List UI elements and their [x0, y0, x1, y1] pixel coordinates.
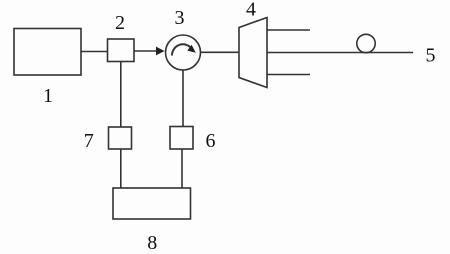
svg-text:3: 3	[175, 7, 185, 29]
circulator internal arrowhead	[187, 45, 196, 53]
wire box6 down to box8	[181, 149, 183, 188]
svg-text:4: 4	[246, 0, 256, 21]
coupler 4 trapezoid	[239, 18, 267, 88]
svg-text:7: 7	[84, 130, 94, 152]
svg-text:5: 5	[426, 45, 436, 67]
svg-text:8: 8	[147, 232, 157, 254]
wire box2 down to box7	[120, 62, 122, 128]
box 7	[109, 127, 132, 149]
box 6	[170, 127, 193, 150]
wire circulator to coupler	[201, 51, 240, 53]
output wire top	[267, 29, 310, 31]
svg-text:1: 1	[43, 85, 53, 107]
wire box1 to box2	[81, 51, 108, 53]
circulator U3 circle	[166, 35, 201, 70]
arrowhead into circulator	[156, 47, 165, 56]
svg-text:6: 6	[206, 130, 216, 152]
box 1 (source)	[14, 29, 81, 76]
output wire middle (to fiber end 5)	[267, 52, 413, 54]
output wire bottom	[267, 74, 310, 76]
circulator internal arrow arc	[172, 44, 192, 55]
fiber loop on output	[357, 34, 375, 52]
box 8	[113, 188, 191, 219]
svg-text:2: 2	[115, 12, 125, 34]
wire box2 to circulator (arrow)	[134, 50, 158, 52]
wire box7 down to box8	[120, 149, 122, 188]
wire circulator down to box6	[182, 70, 184, 127]
box 2	[108, 39, 135, 62]
